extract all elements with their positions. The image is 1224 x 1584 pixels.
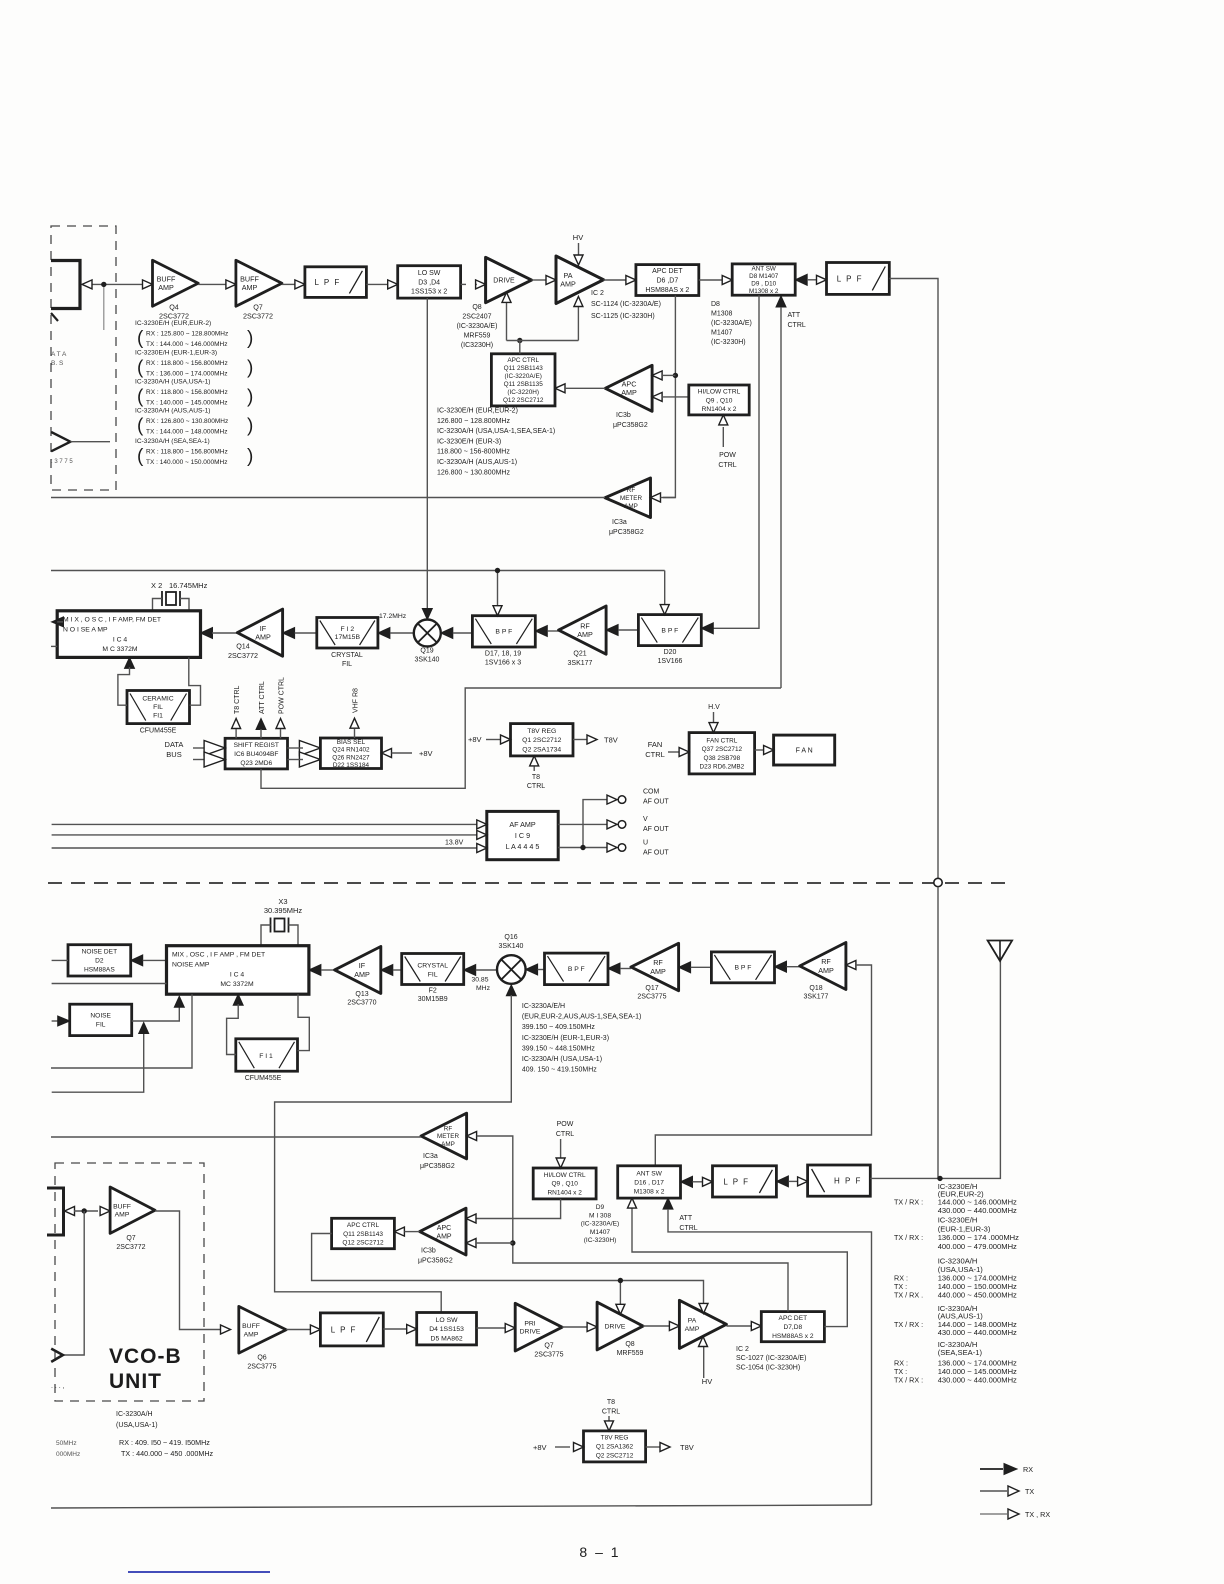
wire - RF METER output to page edge (UHF) xyxy=(51,1136,421,1138)
svg-text:BUFF: BUFF xyxy=(113,1203,131,1210)
node - VCO-A output box (partial, off-page) xyxy=(51,261,80,322)
label - D8 M1308/M1407 types xyxy=(711,301,752,346)
node - bias junction (UHF) xyxy=(618,1278,623,1283)
svg-text:2SC3770: 2SC3770 xyxy=(347,1000,376,1007)
svg-text:IC-3230A/H (USA,USA-1): IC-3230A/H (USA,USA-1) xyxy=(135,379,210,386)
controller - FAN CTRL Q37,Q38,D23 xyxy=(689,733,755,774)
wire - POW CTRL into HI/LOW CTRL xyxy=(718,415,736,469)
amplifier Q17 - RF AMP 2SC3775 xyxy=(631,943,679,1000)
svg-text:MHz: MHz xyxy=(476,985,491,992)
wire - APC DET sense line down xyxy=(663,296,675,498)
svg-text:FAN CTRL: FAN CTRL xyxy=(706,738,737,745)
svg-text:M1308 x 2: M1308 x 2 xyxy=(634,1188,665,1195)
svg-text:AMP: AMP xyxy=(436,1233,452,1240)
svg-text:μPC358G2: μPC358G2 xyxy=(609,529,644,536)
svg-text:AMP: AMP xyxy=(441,1141,455,1148)
svg-text:(IC-3230A/E): (IC-3230A/E) xyxy=(457,323,498,330)
svg-text:F A N: F A N xyxy=(796,748,813,755)
node - antenna bus tap xyxy=(937,1176,942,1181)
svg-text:Q9 , Q10: Q9 , Q10 xyxy=(706,397,733,404)
wire - ATT CTRL routing to ANT SW xyxy=(261,688,781,788)
svg-text:Q11 2SB1143: Q11 2SB1143 xyxy=(343,1231,383,1238)
wire - FAN CTRL to FAN xyxy=(755,746,774,755)
svg-text:AMP: AMP xyxy=(685,1326,700,1333)
svg-text:AMP: AMP xyxy=(650,967,666,976)
svg-text:T8 CTRL: T8 CTRL xyxy=(234,686,241,715)
svg-text:L P F: L P F xyxy=(315,278,341,287)
svg-text:D22 1SS184: D22 1SS184 xyxy=(333,762,370,769)
wire - BPF to mixer Q19 xyxy=(441,628,473,639)
power - +8V into T8V REG (UHF) xyxy=(533,1443,584,1453)
svg-text:L P F: L P F xyxy=(723,1177,749,1186)
svg-text:VCO-B: VCO-B xyxy=(109,1345,182,1368)
svg-text:TX , RX: TX , RX xyxy=(1025,1510,1050,1519)
svg-text:SC-1054 (IC-3230H): SC-1054 (IC-3230H) xyxy=(736,1365,800,1372)
svg-text:): ) xyxy=(247,328,253,349)
label - UHF band frequency table xyxy=(894,1182,1019,1385)
svg-text:(: ( xyxy=(137,358,144,379)
svg-text:2SC3772: 2SC3772 xyxy=(243,312,273,321)
svg-text:IC3b: IC3b xyxy=(421,1248,436,1255)
node - VCO-B junction xyxy=(82,1208,87,1213)
svg-text:ANT SW: ANT SW xyxy=(636,1170,662,1177)
svg-text:D6 ,D7: D6 ,D7 xyxy=(656,278,678,285)
wire - LO SW to DRIVE xyxy=(461,280,486,289)
wire - LPF to LO SW xyxy=(366,280,397,289)
wire - APC AMP lower input (UHF) xyxy=(466,1239,513,1248)
label - VHF band frequency table xyxy=(135,320,253,467)
svg-text:AMP: AMP xyxy=(354,970,370,979)
svg-text:RX : 409. I50 ~ 419. I50MHz: RX : 409. I50 ~ 419. I50MHz xyxy=(119,1438,210,1447)
svg-text:RX : 118.800 ~ 156.800MHz: RX : 118.800 ~ 156.800MHz xyxy=(146,360,228,367)
svg-text:μPC358G2: μPC358G2 xyxy=(420,1163,455,1170)
svg-text:Q18: Q18 xyxy=(809,985,822,992)
amplifier IC9 - AF AMP LA4445 xyxy=(487,811,558,859)
svg-text:FIL: FIL xyxy=(153,704,163,711)
svg-text:I C 4: I C 4 xyxy=(230,972,245,979)
svg-text:RX : 126.800 ~ 130.800MHz: RX : 126.800 ~ 130.800MHz xyxy=(146,418,228,425)
svg-text:I C 4: I C 4 xyxy=(113,637,128,644)
svg-text:3SK140: 3SK140 xyxy=(415,657,440,664)
svg-text:D9: D9 xyxy=(596,1204,605,1211)
svg-text:(IC3230H): (IC3230H) xyxy=(461,342,493,349)
wire - arrow into Q7 (UHF buffer) xyxy=(100,1207,110,1216)
svg-text:APC CTRL: APC CTRL xyxy=(507,357,539,364)
svg-text:TX : 440.000 ~ 450 .000MHz: TX : 440.000 ~ 450 .000MHz xyxy=(121,1449,214,1458)
wire - IC4 mute line to page edge xyxy=(51,994,192,1068)
wire - Q13 to IC4 xyxy=(309,965,335,976)
svg-text:D9 , D10: D9 , D10 xyxy=(751,281,776,288)
svg-text:UNIT: UNIT xyxy=(109,1370,162,1393)
svg-text:L A 4 4 4 5: L A 4 4 4 5 xyxy=(506,842,540,851)
svg-text:NOISE: NOISE xyxy=(90,1013,111,1020)
svg-text:(: ( xyxy=(137,328,144,349)
wire - T8V output xyxy=(573,735,618,745)
svg-text:IC-3230E/H (EUR,EUR-2): IC-3230E/H (EUR,EUR-2) xyxy=(135,320,211,327)
load - FAN xyxy=(774,735,835,765)
svg-text:B P F: B P F xyxy=(568,966,585,973)
svg-text:VHF R8: VHF R8 xyxy=(353,688,360,713)
svg-text:399.150 ~ 409.150MHz: 399.150 ~ 409.150MHz xyxy=(522,1024,595,1031)
svg-text:16.745MHz: 16.745MHz xyxy=(169,581,208,590)
amplifier IC3b - APC AMP uPC358G2 xyxy=(605,365,652,429)
svg-text:Q2 2SA1734: Q2 2SA1734 xyxy=(522,746,561,753)
wire - T8 CTRL into T8V REG (UHF) xyxy=(602,1399,620,1431)
svg-text:TX : 136.000 ~ 174.000MHz: TX : 136.000 ~ 174.000MHz xyxy=(146,371,227,378)
wire - T8 CTRL into T8V REG xyxy=(527,756,545,790)
svg-text:DRIVE: DRIVE xyxy=(520,1329,541,1336)
svg-text:126.800 ~ 128.800MHz: 126.800 ~ 128.800MHz xyxy=(437,418,510,425)
wire - BPF D20 to RF AMP xyxy=(606,625,638,636)
svg-text:ATT: ATT xyxy=(679,1215,692,1222)
wire - RF METER output to page edge xyxy=(51,497,605,499)
svg-text:IF: IF xyxy=(260,624,267,633)
wire - IC4 aux input from page edge xyxy=(52,983,167,985)
wire - noise fil output to IC4 xyxy=(132,996,185,1021)
detector - NOISE DET HSM88AS xyxy=(68,945,131,976)
svg-text:CTRL: CTRL xyxy=(679,1225,697,1232)
svg-text:COM: COM xyxy=(643,789,660,796)
svg-text:B. S: B. S xyxy=(51,360,64,367)
wire - IC4 to NOISE DET xyxy=(131,955,167,966)
amplifier Q14 - IF AMP 2SC3772 xyxy=(228,609,283,660)
controller - HI/LOW CTRL Q9,Q10 (UHF) xyxy=(533,1168,596,1199)
label - LO frequency list (VHF) xyxy=(437,408,555,477)
svg-text:D16 , D17: D16 , D17 xyxy=(634,1179,664,1186)
switch - LO SW D3,D4 1SS153x2 xyxy=(398,266,461,298)
svg-text:F I 1: F I 1 xyxy=(259,1053,273,1060)
wire - RF AMP to BPF xyxy=(535,626,558,637)
svg-text:3SK140: 3SK140 xyxy=(499,943,524,950)
svg-text:TX: TX xyxy=(1025,1487,1034,1496)
svg-text:(USA,USA-1): (USA,USA-1) xyxy=(116,1422,158,1429)
wire - LO injection into mixer Q19 xyxy=(422,298,432,619)
svg-text:LO SW: LO SW xyxy=(436,1317,458,1324)
wire - footer underline (blue) xyxy=(128,1571,270,1573)
wire - Q17 to BPF xyxy=(608,963,631,974)
mixer Q16 - 3SK140 xyxy=(497,934,526,984)
svg-text:13.8V: 13.8V xyxy=(445,840,464,847)
svg-text:AMP: AMP xyxy=(621,388,637,397)
svg-text:B P F: B P F xyxy=(735,965,752,972)
amplifier IC3b - APC AMP uPC358G2 (UHF) xyxy=(418,1208,466,1264)
svg-text:+8V: +8V xyxy=(533,1443,547,1452)
svg-text:IC6 BU4094BF: IC6 BU4094BF xyxy=(234,751,278,758)
filter - BPF (UHF 2nd) xyxy=(711,952,774,983)
label - page edge MHz fragments xyxy=(56,1440,80,1458)
node - APC sense junction (UHF) xyxy=(510,1240,515,1245)
wire - LO SW to PRI DRIVE xyxy=(477,1324,516,1333)
svg-text:HV: HV xyxy=(573,233,583,242)
svg-text:CTRL: CTRL xyxy=(602,1409,620,1416)
svg-text:D23 RD6.2MB2: D23 RD6.2MB2 xyxy=(699,763,744,770)
svg-text:V: V xyxy=(643,816,648,823)
svg-text:N O I SE A MP: N O I SE A MP xyxy=(63,627,108,634)
svg-text:1SV166 x 3: 1SV166 x 3 xyxy=(485,660,521,667)
svg-text:Q8: Q8 xyxy=(472,304,481,311)
wire - VCO-A to buffer xyxy=(91,283,143,285)
svg-text:(: ( xyxy=(137,446,144,467)
wire - APC CTRL to DRIVE and PA bias (UHF) xyxy=(312,1234,708,1315)
amplifier Q21 - RF AMP 3SK177 xyxy=(559,606,607,667)
svg-text:IC3a: IC3a xyxy=(423,1153,438,1160)
svg-text:D5 MA862: D5 MA862 xyxy=(431,1335,463,1342)
svg-text:430.000 ~ 440.000MHz: 430.000 ~ 440.000MHz xyxy=(938,1328,1017,1337)
svg-text:BUS: BUS xyxy=(166,750,181,759)
svg-text:H.V: H.V xyxy=(708,704,720,711)
regulator - T8V REG Q1 2SC2712 Q2 2SA1734 xyxy=(511,724,574,756)
legend - TX,RX arrow xyxy=(980,1509,1050,1519)
wire - RX preselect line xyxy=(51,571,669,616)
wire - APC AMP out to APC CTRL xyxy=(555,384,605,393)
svg-text:Q37 2SC2712: Q37 2SC2712 xyxy=(702,746,743,753)
amplifier Q7 - BUFF AMP 2SC3772 (VCO-B) xyxy=(110,1187,155,1251)
wire - T8V output (UHF) xyxy=(646,1443,694,1453)
wire - VCO-B unit boundary (dashed) xyxy=(55,1163,204,1401)
svg-text:(EUR,EUR-2,AUS,AUS-1,SEA,SEA-1: (EUR,EUR-2,AUS,AUS-1,SEA,SEA-1) xyxy=(522,1014,641,1021)
svg-text:Q1 2SC2712: Q1 2SC2712 xyxy=(522,737,562,744)
svg-text:Q21: Q21 xyxy=(573,651,586,658)
svg-text:: 3 7 7 5: : 3 7 7 5 xyxy=(51,459,73,465)
svg-text:Q19: Q19 xyxy=(420,648,433,655)
wire - LPF to LO SW xyxy=(383,1325,416,1334)
wire - shift register to bias sel xyxy=(288,741,321,768)
wire - mixer to crystal filter xyxy=(378,613,414,639)
filter - LPF (duplexer) xyxy=(713,1166,777,1197)
svg-text:17.2MHz: 17.2MHz xyxy=(379,613,407,620)
svg-text:MRF559: MRF559 xyxy=(464,333,491,340)
svg-text:409. 150 ~ 419.150MHz: 409. 150 ~ 419.150MHz xyxy=(522,1067,597,1074)
wire - arrow into VCO-B box xyxy=(65,1207,75,1216)
svg-text:+8V: +8V xyxy=(468,735,482,744)
wire - COM AF OUT xyxy=(583,789,669,848)
svg-text:μPC358G2: μPC358G2 xyxy=(613,422,648,429)
wire - IC4 output to page edge xyxy=(52,617,64,627)
wire - LPF to HPF xyxy=(776,1176,807,1187)
svg-text:(: ( xyxy=(137,387,144,408)
svg-text:X3: X3 xyxy=(278,897,287,906)
svg-text:DRIVE: DRIVE xyxy=(493,278,515,285)
svg-text:(IC-3230H): (IC-3230H) xyxy=(584,1237,617,1244)
filter - HPF (duplexer) xyxy=(808,1165,871,1196)
wire - BPF2 to Q17 xyxy=(679,962,712,973)
node - AF junction xyxy=(580,845,585,850)
svg-text:430.000 ~ 440.000MHz: 430.000 ~ 440.000MHz xyxy=(938,1206,1017,1215)
node - APC CTRL bias junction xyxy=(517,338,522,343)
wire - RX feed ANT SW down to BPF D20 xyxy=(701,295,759,634)
wire - ATT CTRL into ANT SW xyxy=(776,296,806,688)
svg-text:HSM88AS: HSM88AS xyxy=(84,967,115,974)
svg-text:): ) xyxy=(247,446,253,467)
wire - APC AMP input from HI/LOW CTRL xyxy=(652,392,689,401)
svg-text:RF: RF xyxy=(821,957,831,966)
svg-text:IC-3230A/H (SEA,SEA-1): IC-3230A/H (SEA,SEA-1) xyxy=(135,438,210,445)
svg-text:CTRL: CTRL xyxy=(788,322,806,329)
svg-text:BUFF: BUFF xyxy=(157,274,176,283)
svg-text:AMP: AMP xyxy=(624,503,638,510)
svg-text:PA: PA xyxy=(688,1318,697,1325)
svg-text:AF AMP: AF AMP xyxy=(509,820,536,829)
svg-text:2SC2407: 2SC2407 xyxy=(462,314,491,321)
svg-text:M1308: M1308 xyxy=(711,311,733,318)
svg-text:APC: APC xyxy=(437,1225,451,1232)
wire - ATT CTRL into lower ANT SW xyxy=(663,1198,872,1505)
svg-text:HI/LOW CTRL: HI/LOW CTRL xyxy=(698,388,741,395)
bus - DATA BUS input arrows xyxy=(165,740,226,767)
wire - PA to APC DET xyxy=(726,1322,761,1331)
filter FI1 - CFUM455E (UHF) xyxy=(236,1039,298,1082)
wire - IC4 to FI1 (right) xyxy=(298,994,310,1050)
svg-text:D2: D2 xyxy=(95,958,104,965)
svg-text:TX : 140.000 ~ 150.000MHz: TX : 140.000 ~ 150.000MHz xyxy=(146,459,227,466)
svg-text:Q26 RN2427: Q26 RN2427 xyxy=(332,754,370,761)
amplifier IC3a - RF METER AMP (VHF) xyxy=(605,478,651,536)
svg-text:APC: APC xyxy=(622,379,637,388)
svg-text:CRYSTAL: CRYSTAL xyxy=(417,963,448,970)
amplifier Q7 - PRI DRIVE 2SC3775 xyxy=(515,1303,563,1358)
svg-text:2SC3772: 2SC3772 xyxy=(228,651,258,660)
svg-text:Q17: Q17 xyxy=(645,985,658,992)
svg-text:T8: T8 xyxy=(532,774,540,781)
wire - crystal filter to IF AMP xyxy=(283,628,317,639)
svg-text:AMP: AMP xyxy=(242,283,258,292)
svg-text:T8V: T8V xyxy=(604,736,618,745)
label - UHF USA frequency rows xyxy=(119,1438,214,1458)
wire - Q7 to LPF xyxy=(282,280,305,289)
svg-text:(IC-3230H): (IC-3230H) xyxy=(711,339,746,346)
svg-text:METER: METER xyxy=(620,495,642,502)
wire - IC4 to FI1 (left) xyxy=(227,994,244,1054)
svg-text:HSM88AS x 2: HSM88AS x 2 xyxy=(645,287,689,294)
node - VCO-B output box (partial, off-page) xyxy=(47,1188,64,1235)
detector - APC DET D6,D7 HSM88ASx2 xyxy=(636,265,699,296)
wire - BPF to mixer Q16 xyxy=(526,964,545,975)
amplifier Q13 - IF AMP 2SC3770 xyxy=(335,947,381,1007)
svg-text:PA: PA xyxy=(563,271,572,280)
wire - T8 CTRL stub xyxy=(232,686,241,739)
svg-text:Q11 2SB1143: Q11 2SB1143 xyxy=(504,365,544,372)
wire - IC4 to ceramic filter (left) xyxy=(118,657,135,705)
wire - section separator (dashed) xyxy=(48,882,1010,884)
svg-text:AF OUT: AF OUT xyxy=(643,826,669,833)
wire - crystal fil to Q13 xyxy=(381,965,402,976)
svg-text:ATT: ATT xyxy=(788,312,801,319)
svg-text:D20: D20 xyxy=(664,649,677,656)
svg-text:BUFF: BUFF xyxy=(242,1323,260,1330)
filter - LPF (UHF TX) xyxy=(320,1313,383,1346)
svg-text:FIL: FIL xyxy=(342,661,352,668)
register IC6 - SHIFT REGIST BU4094BF xyxy=(225,738,287,769)
svg-text:3SK177: 3SK177 xyxy=(568,660,593,667)
label - VCO-B UNIT xyxy=(109,1345,182,1393)
svg-text:ATT CTRL: ATT CTRL xyxy=(259,681,266,714)
svg-text:IC3b: IC3b xyxy=(616,412,631,419)
svg-text:30.85: 30.85 xyxy=(471,977,488,984)
node - APC sense junction xyxy=(673,373,678,378)
wire - POW CTRL stub xyxy=(276,677,286,738)
svg-text:DATA: DATA xyxy=(165,740,184,749)
svg-text:Q24 RN1402: Q24 RN1402 xyxy=(332,747,370,754)
svg-text:M1407: M1407 xyxy=(590,1229,610,1236)
label - D9 M1308/M1407 types xyxy=(581,1204,619,1244)
svg-text:AF OUT: AF OUT xyxy=(643,850,669,857)
svg-text:RF: RF xyxy=(580,621,590,630)
wire - Q6 to LPF xyxy=(286,1325,320,1334)
svg-text:CRYSTAL: CRYSTAL xyxy=(331,652,363,659)
svg-text:M1308 x 2: M1308 x 2 xyxy=(749,288,779,295)
svg-text:F I 2: F I 2 xyxy=(341,626,355,633)
svg-text:Q2 2SC2712: Q2 2SC2712 xyxy=(596,1453,634,1460)
svg-text:+8V: +8V xyxy=(419,749,433,758)
svg-text:TX : 140.000 ~ 145.000MHz: TX : 140.000 ~ 145.000MHz xyxy=(146,400,227,407)
amplifier Q18 - RF AMP 3SK177 xyxy=(800,943,846,1001)
svg-text:APC DET: APC DET xyxy=(652,268,683,275)
wire - VCO-B feedback loop xyxy=(51,1211,84,1362)
svg-text:RF: RF xyxy=(653,958,663,967)
wire - RF METER AMP input xyxy=(651,493,676,502)
svg-text:FIL: FIL xyxy=(96,1022,106,1029)
svg-text:AMP: AMP xyxy=(560,280,576,289)
svg-text:126.800 ~ 130.800MHz: 126.800 ~ 130.800MHz xyxy=(437,469,510,476)
svg-text:MRF559: MRF559 xyxy=(617,1350,644,1357)
ic IC4 - MIX,OSC,IF AMP,FM DET MC3372M (UHF) xyxy=(167,946,309,995)
svg-text:2SC3775: 2SC3775 xyxy=(534,1352,563,1359)
wire - APC DET to ANT SW (TX) xyxy=(628,1198,848,1327)
svg-text:Q6: Q6 xyxy=(257,1355,266,1362)
wire - HI/LOW to APC AMP (UHF) xyxy=(466,1199,561,1223)
wire - mixer Q16 LO feed xyxy=(275,985,517,1313)
svg-text:D7,D8: D7,D8 xyxy=(783,1324,802,1331)
svg-text:Q11 2SB1135: Q11 2SB1135 xyxy=(504,381,544,388)
svg-text:AMP: AMP xyxy=(244,1331,259,1338)
svg-text:IC-3230E/H (EUR-3): IC-3230E/H (EUR-3) xyxy=(437,438,501,445)
svg-text:): ) xyxy=(247,358,253,379)
filter - NOISE FIL xyxy=(70,1004,132,1035)
wire - U AF OUT xyxy=(558,840,669,857)
svg-text:30.395MHz: 30.395MHz xyxy=(264,906,303,915)
svg-text:IC-3230A/H (AUS,AUS-1): IC-3230A/H (AUS,AUS-1) xyxy=(437,459,517,466)
svg-text:IC-3230A/E/H: IC-3230A/E/H xyxy=(522,1003,565,1010)
controller - HI/LOW CTRL Q9,Q10 RN1404x2 xyxy=(689,385,749,415)
filter - BPF (UHF 1st) xyxy=(545,953,609,985)
wire - noise det input from page edge xyxy=(52,959,68,961)
svg-text:CERAMIC: CERAMIC xyxy=(142,696,173,703)
wire - APC DET to ANT SW xyxy=(699,276,732,285)
svg-text:Q13: Q13 xyxy=(355,991,368,998)
wire - ATT CTRL stub xyxy=(256,681,266,738)
svg-text:TX : 144.000 ~ 148.000MHz: TX : 144.000 ~ 148.000MHz xyxy=(146,429,227,436)
svg-text:RF: RF xyxy=(627,487,636,494)
svg-text:50MHz: 50MHz xyxy=(56,1440,77,1447)
selector - BIAS SEL Q24,Q26,D22 xyxy=(320,738,381,769)
svg-text:CTRL: CTRL xyxy=(527,783,545,790)
svg-text:TX / RX .: TX / RX . xyxy=(894,1291,923,1300)
wire - Q4 to Q7 xyxy=(198,280,236,289)
svg-text:IC-3230E/H (EUR-1,EUR-3): IC-3230E/H (EUR-1,EUR-3) xyxy=(135,350,217,357)
wire - VCO-A unit boundary (dashed) xyxy=(51,226,116,490)
amplifier Q4 - BUFF AMP 2SC3772 xyxy=(153,260,199,320)
svg-text:Q38 2SB798: Q38 2SB798 xyxy=(704,755,741,762)
wire - APC AMP out to APC CTRL (UHF) xyxy=(394,1227,419,1236)
svg-text:TX / RX :: TX / RX : xyxy=(894,1376,923,1385)
svg-text:D4 1SS153: D4 1SS153 xyxy=(429,1326,464,1333)
svg-text:CTRL: CTRL xyxy=(556,1131,574,1138)
filter FI2 - 17M15B crystal filter xyxy=(317,618,378,669)
svg-text:1SV166: 1SV166 xyxy=(658,658,683,665)
svg-text:AMP: AMP xyxy=(818,966,834,975)
svg-text:SC-1125 (IC-3230H): SC-1125 (IC-3230H) xyxy=(591,313,655,320)
svg-text:Q4: Q4 xyxy=(169,303,179,312)
